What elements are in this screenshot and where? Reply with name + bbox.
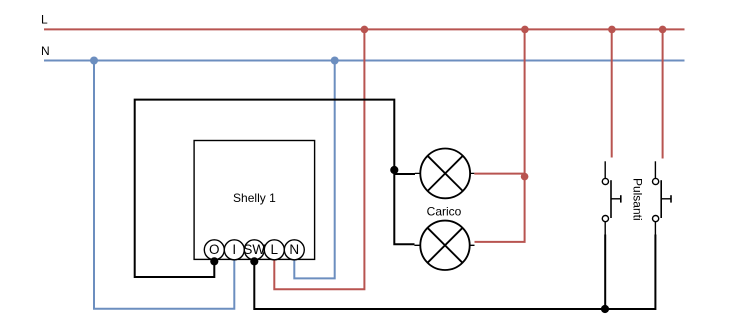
junction dot on N bus at x=94 (90, 57, 98, 65)
wire L bus to push button 1 (red) (611, 29, 613, 157)
svg-text:SW: SW (243, 242, 265, 257)
svg-text:L: L (41, 13, 48, 27)
wire L bus to Shelly L terminal (red) (274, 29, 364, 289)
terminal N (284, 240, 304, 260)
svg-text:Carico: Carico (427, 205, 462, 219)
wire Shelly O to lamps (black loop) (135, 100, 415, 277)
junction dot on lamp feed (521, 173, 529, 181)
junction dot under terminal SW (250, 257, 258, 265)
wire L bus to lamp feeds (red) (475, 29, 525, 242)
wire N bus line (blue) (44, 60, 685, 62)
svg-text:Pulsanti: Pulsanti (631, 178, 645, 221)
wire N bus to Shelly I terminal (blue) (94, 61, 234, 309)
junction dot on L bus at x=662.6 (659, 26, 667, 34)
Shelly 1 box (194, 141, 315, 260)
terminal L (264, 240, 284, 260)
terminal O (204, 240, 224, 260)
wire L bus to push button 2 (red) (662, 29, 664, 158)
lamp 1 (Carico, top) (415, 149, 475, 199)
terminal SW (244, 240, 264, 260)
junction dot on L bus at x=524.6 (521, 26, 529, 34)
junction dot on L bus at x=611.7 (608, 26, 616, 34)
wire branch to lamp 1 left (black) (394, 173, 415, 175)
svg-text:N: N (289, 242, 299, 257)
junction dot on lamp drop (390, 166, 398, 174)
svg-text:L: L (271, 242, 279, 257)
svg-text:N: N (41, 44, 50, 58)
push button 1 (602, 161, 620, 235)
svg-text:O: O (209, 242, 220, 257)
junction dot on L bus at x=364.4 (361, 26, 369, 34)
wire branch to lamp 1 right (red) (474, 173, 524, 175)
wire push button 1 bottom drop (black) (604, 235, 606, 310)
wire Shelly SW to push buttons (black) (254, 235, 655, 310)
junction dot under terminal O (210, 257, 218, 265)
wire N bus to Shelly N terminal (blue) (294, 61, 334, 279)
svg-text:Shelly 1: Shelly 1 (233, 191, 276, 205)
push button 2 (653, 161, 672, 235)
terminal I (224, 240, 244, 260)
junction dot on N bus at x=334.7 (331, 57, 339, 65)
lamp 2 (Carico, bottom) (414, 221, 474, 270)
wire L bus line (red) (44, 28, 685, 30)
svg-text:I: I (232, 242, 236, 257)
junction dot on bottom run (601, 305, 609, 313)
